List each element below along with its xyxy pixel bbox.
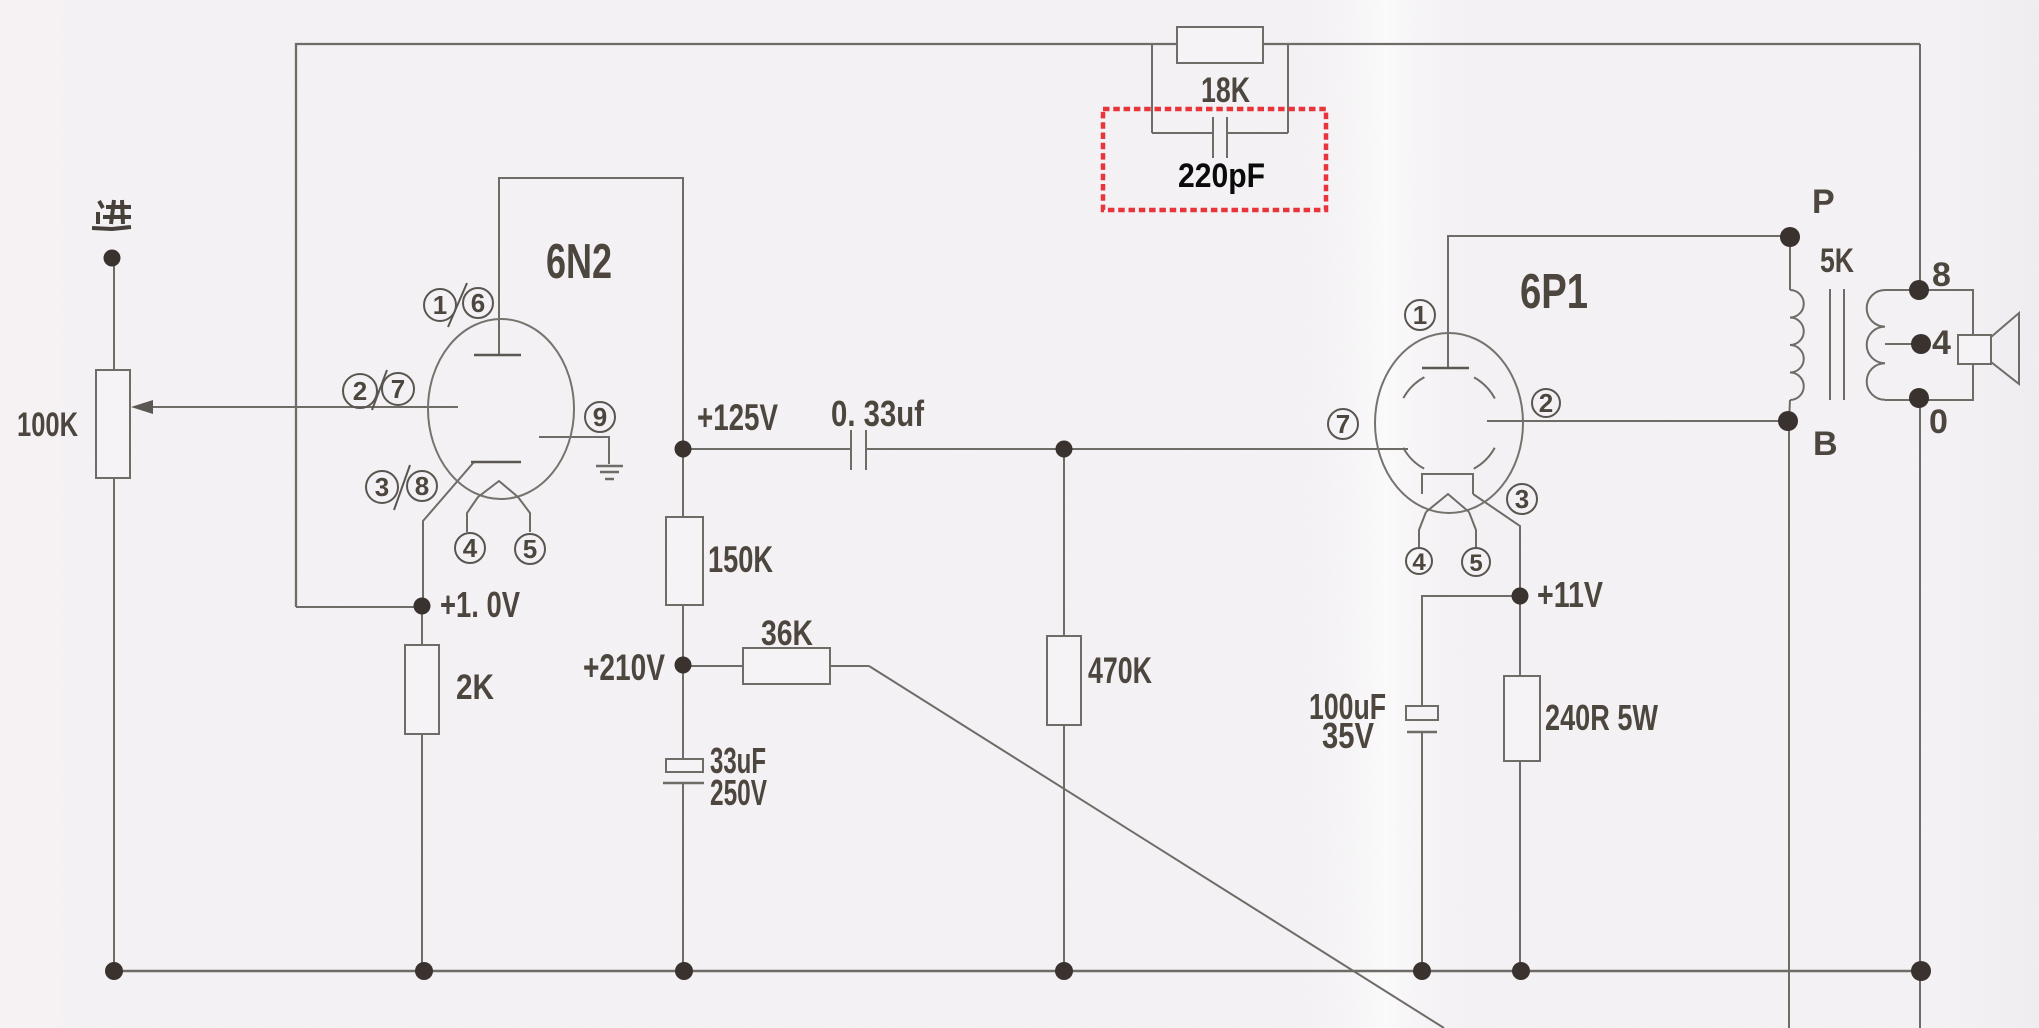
pin 3 of 6P1 — [1507, 484, 1537, 514]
pin 7 of 6P1 — [1328, 409, 1358, 439]
red highlight box 220pF — [1103, 109, 1326, 210]
tube 6N2 cathode bar — [471, 461, 521, 464]
node rail-240R — [1512, 962, 1530, 980]
potentiometer 100K body — [96, 370, 130, 478]
svg-text:2K: 2K — [456, 668, 494, 707]
wire feedback to cathode node — [296, 606, 422, 608]
label input chinese — [92, 200, 131, 229]
resistor 36K — [743, 648, 830, 684]
speaker — [1958, 335, 1991, 364]
pin 9 of 6N2 — [585, 402, 615, 432]
pin 2 of 6P1 — [1532, 389, 1560, 417]
svg-text:4: 4 — [1932, 324, 1951, 362]
svg-text:1: 1 — [433, 290, 447, 320]
capacitor 0.33uf plates — [851, 430, 866, 470]
node 470K top — [1056, 441, 1073, 458]
tube 6P1 envelope — [1375, 333, 1523, 513]
transformer secondary frame — [1885, 290, 1973, 400]
node rail-pot — [105, 962, 123, 980]
wire +210V to 36K — [683, 665, 743, 667]
svg-text:0. 33uf: 0. 33uf — [831, 393, 925, 434]
ground at 6N2 pin9 — [596, 466, 623, 479]
wire +125V node to coupling cap — [683, 448, 851, 450]
pin 5 of 6P1 — [1462, 548, 1490, 576]
svg-text:6N2: 6N2 — [546, 235, 612, 289]
wire transformer B lead down — [1789, 400, 1790, 421]
wire +11V node wiring — [1422, 596, 1520, 706]
resistor 240R — [1504, 676, 1540, 761]
svg-text:3: 3 — [1515, 484, 1529, 514]
capacitor 100uF — [1406, 706, 1438, 732]
node B — [1778, 411, 1798, 431]
svg-text:35V: 35V — [1322, 715, 1374, 756]
svg-text:+11V: +11V — [1537, 574, 1603, 615]
svg-text:2: 2 — [353, 376, 367, 406]
svg-text:7: 7 — [1336, 409, 1350, 439]
wire 2K resistor leads — [421, 607, 423, 645]
svg-text:0: 0 — [1929, 403, 1948, 441]
svg-text:4: 4 — [1412, 549, 1426, 576]
node rail-470K — [1055, 962, 1073, 980]
svg-text:250V: 250V — [710, 772, 767, 813]
resistor 470K — [1047, 636, 1081, 725]
node +210V — [675, 657, 692, 674]
wire coupling cap to 6P1 grid — [866, 448, 1408, 450]
transformer core — [1830, 289, 1844, 400]
node input — [104, 250, 121, 267]
node tap0 — [1909, 388, 1929, 408]
pin 3/8 of 6N2 — [366, 465, 437, 510]
tube 6P1 heater — [1419, 494, 1476, 548]
tube 6P1 cathode box — [1422, 474, 1473, 494]
svg-text:5K: 5K — [1820, 242, 1854, 280]
svg-text:7: 7 — [391, 374, 405, 404]
transformer secondary coil — [1867, 290, 1885, 400]
wire transformer P lead — [1789, 237, 1791, 290]
node tap8 — [1909, 280, 1929, 300]
svg-text:1: 1 — [1413, 300, 1427, 330]
svg-text:P: P — [1812, 183, 1835, 221]
node rail-33uF — [675, 962, 693, 980]
wire right edge rail to tap8 — [1919, 44, 1921, 290]
svg-text:+125V: +125V — [697, 397, 778, 438]
svg-text:+210V: +210V — [583, 647, 665, 688]
node P — [1780, 227, 1800, 247]
wire 6N2 anode box — [499, 178, 683, 449]
wire input vertical — [113, 264, 115, 370]
svg-text:8: 8 — [415, 471, 429, 501]
svg-text:240R 5W: 240R 5W — [1545, 697, 1658, 738]
tube 6N2 envelope — [428, 319, 574, 499]
tube 6P1 anode bar — [1422, 367, 1469, 370]
pin 5 of 6N2 — [515, 534, 545, 564]
svg-text:5: 5 — [1469, 550, 1482, 577]
wire top feedback rail — [296, 44, 1920, 607]
wire wiper to 6N2 grid — [134, 406, 458, 408]
resistor 2K — [405, 645, 439, 734]
pin 1/6 of 6N2 — [424, 283, 493, 327]
wire 6P1 cathode lead — [1473, 494, 1520, 596]
svg-text:4: 4 — [463, 533, 478, 563]
node tap4 — [1911, 334, 1931, 354]
node rail-100uF — [1413, 962, 1431, 980]
capacitor 33uF — [663, 759, 704, 783]
node rail-right — [1911, 961, 1931, 981]
wire 6N2 cathode lead — [423, 462, 474, 607]
resistor 18K — [1177, 27, 1263, 63]
pin 4 of 6N2 — [455, 533, 485, 563]
node +1.0V — [414, 598, 431, 615]
wire pot bottom to rail — [113, 478, 115, 971]
wire 6P1 anode to P — [1448, 236, 1790, 368]
svg-text:6: 6 — [471, 288, 485, 318]
pin 1 of 6P1 — [1405, 300, 1435, 330]
svg-text:470K: 470K — [1088, 650, 1152, 691]
svg-text:100K: 100K — [17, 406, 78, 444]
svg-text:18K: 18K — [1201, 71, 1250, 110]
svg-text:6P1: 6P1 — [1520, 265, 1588, 319]
svg-text:B: B — [1813, 425, 1838, 463]
svg-text:8: 8 — [1932, 256, 1951, 294]
node +125V — [675, 441, 692, 458]
tube 6N2 heater — [467, 481, 530, 532]
wire 240R leads — [1519, 596, 1521, 676]
potentiometer wiper arrow — [131, 400, 153, 414]
tube 6N2 anode bar — [474, 354, 521, 357]
wire bottom rail — [114, 970, 1921, 973]
svg-text:36K: 36K — [761, 614, 813, 653]
capacitor 220pF network — [1152, 44, 1288, 158]
node +11V — [1512, 588, 1529, 605]
svg-text:5: 5 — [523, 534, 537, 564]
node rail-2K — [415, 962, 433, 980]
svg-text:9: 9 — [593, 402, 607, 432]
pin 4 of 6P1 — [1406, 548, 1432, 574]
svg-text:2: 2 — [1539, 388, 1553, 418]
pin 2/7 of 6N2 — [343, 370, 414, 410]
resistor 150K — [666, 517, 703, 605]
svg-text:3: 3 — [375, 472, 389, 502]
wire 6P1 screen to B — [1487, 420, 1788, 422]
wire 150K branch — [682, 449, 684, 517]
wire 6N2 pin9 lead — [539, 437, 609, 464]
svg-text:150K: 150K — [708, 539, 773, 580]
wire tap0 down through rail — [1919, 398, 1921, 1028]
wire diagonal B+ feed — [869, 666, 1444, 1028]
transformer primary coil — [1790, 290, 1804, 400]
tube 6P1 screen grid dashed — [1397, 371, 1501, 475]
svg-text:+1. 0V: +1. 0V — [440, 584, 520, 625]
svg-text:220pF: 220pF — [1178, 157, 1265, 195]
wire 470K vertical — [1063, 449, 1065, 636]
